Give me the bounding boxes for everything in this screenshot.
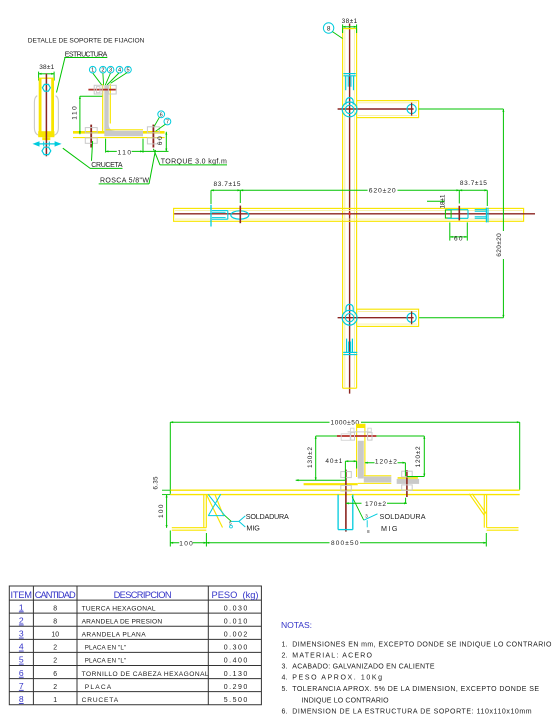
svg-text:NOTAS:: NOTAS: [281,620,312,630]
svg-text:7: 7 [166,120,169,126]
main crossarm (yellow) [174,208,524,221]
svg-text:0.002: 0.002 [224,632,248,639]
svg-text:ARANDELA DE PRESION: ARANDELA DE PRESION [82,618,163,625]
svg-text:CRUCETA: CRUCETA [82,697,119,704]
svg-text:170±2: 170±2 [365,501,386,508]
main crossarm centerline (maroon) [174,213,535,215]
left end bracket (yellow) [172,495,207,531]
svg-text:120±2: 120±2 [415,446,422,467]
svg-text:8: 8 [327,25,331,32]
svg-text:800±50: 800±50 [331,540,359,547]
dimension 83.7±15 left [211,181,241,204]
lower crossarm centerline (maroon) [338,317,414,319]
cruceta flange band (yellow) [73,132,165,137]
label CRUCETA with leaders [63,141,123,169]
bolt top of angle (red) [337,435,377,437]
bolt centerline (side view) [45,74,47,157]
upper arm end hole (cyan) [407,103,416,116]
svg-text:PLACA EN "L": PLACA EN "L" [85,658,127,665]
svg-text:PESO (kg): PESO (kg) [212,590,259,600]
svg-text:40±1: 40±1 [325,458,342,465]
svg-text:DETALLE DE SOPORTE DE FIJACION: DETALLE DE SOPORTE DE FIJACION [28,37,145,44]
left mounting bolt (maroon) [239,206,241,224]
weld arrows left (cyan) [208,494,245,528]
svg-text:CANTIDAD: CANTIDAD [35,590,76,600]
shackle upper (cyan) [346,98,353,105]
pole centerline (maroon) [349,24,351,394]
label SOLDADURA MIG left [246,512,289,533]
svg-text:2: 2 [53,658,57,665]
right clamp bracket (cyan) [448,210,468,219]
u-bolt eye lower (cyan circles) [342,310,357,325]
svg-text:MIG: MIG [381,524,398,533]
svg-text:INDIQUE LO CONTRARIO: INDIQUE LO CONTRARIO [301,697,389,704]
balloon 8 with leader [323,23,342,39]
svg-text:DIMENSIONES EN mm, EXCEPTO DON: DIMENSIONES EN mm, EXCEPTO DONDE SE INDI… [292,641,552,648]
svg-text:2: 2 [53,684,57,691]
svg-text:8: 8 [53,618,57,625]
dimension 170±2 [346,498,407,508]
balloon leaders 6-7 [154,117,165,131]
svg-text:2: 2 [19,616,24,626]
angle bracket assembly (gray/yellow) [356,424,391,484]
dimension 110 horizontal [106,139,169,157]
lower arm end hole (cyan) [407,311,416,324]
svg-text:MIG: MIG [246,524,260,533]
right cruceta clamp (cyan) [475,208,488,223]
svg-text:38±1: 38±1 [39,64,54,71]
svg-text:10: 10 [51,632,59,639]
svg-text:60: 60 [454,236,463,243]
dimension 100 bottom [170,531,206,548]
dimension 60 (detail) [157,132,166,152]
dimension 1000±50 [170,418,519,494]
svg-text:ACABADO: GALVANIZADO EN CALIEN: ACABADO: GALVANIZADO EN CALIENTE [292,664,435,671]
label SOLDADURA MIG right [380,512,426,533]
svg-text:620±20: 620±20 [369,188,396,195]
svg-text:0.300: 0.300 [224,645,248,652]
svg-text:4: 4 [118,68,121,74]
svg-text:0.030: 0.030 [224,605,248,612]
svg-text:1: 1 [53,697,57,704]
svg-text:PESO APROX. 10Kg: PESO APROX. 10Kg [292,675,382,682]
svg-text:4: 4 [19,642,24,652]
beam cruceta (yellow) [170,490,519,494]
dimension 130±2 [296,436,346,480]
svg-text:130±2: 130±2 [307,447,314,468]
dimension 120±2 horizontal [365,457,406,476]
svg-text:1000±50: 1000±50 [331,419,360,426]
svg-text:2.: 2. [282,653,288,660]
svg-text:TOLERANCIA APROX. 5% DE LA DIM: TOLERANCIA APROX. 5% DE LA DIMENSION, EX… [292,686,539,693]
right end bracket (yellow) [484,495,518,531]
svg-text:2: 2 [101,68,104,74]
svg-text:18±1: 18±1 [440,194,447,208]
structure profile (gray outline) [34,96,58,136]
dimension 40±1 [325,458,356,480]
dimension 620±20 horizontal [240,186,459,195]
L-bracket plate (gray with yellow edges) [103,84,143,136]
hex nut below (cyan) [42,147,51,154]
left bolt through cruceta (maroon) [90,125,92,148]
left bolt nuts (gray) [341,472,352,491]
dimension 60 (main) [450,222,468,242]
svg-text:8: 8 [53,605,57,612]
table rows [19,602,247,704]
right bolt through cruceta (maroon) [152,125,154,148]
bolt through vertical leg (red) [88,89,116,91]
svg-text:DESCRIPCION: DESCRIPCION [114,590,172,600]
svg-text:8: 8 [19,694,24,704]
label ESTRUCTURA with leader [57,51,108,92]
pole (yellow) [343,29,357,389]
dimension 18±1 [427,194,447,208]
upper crossarm centerline (maroon) [338,108,414,110]
svg-text:0.010: 0.010 [224,618,248,625]
svg-text:0.400: 0.400 [224,658,248,665]
guy clamp lower (cyan) [343,339,357,355]
washers at top bolt (gray) [94,85,116,94]
dimension 38±1 (pole top) [342,18,358,33]
lower crossarm (yellow) [357,309,419,326]
svg-text:ARANDELA PLANA: ARANDELA PLANA [82,632,147,639]
svg-text:6.: 6. [282,709,288,716]
left gusset brace (yellow) [206,494,223,527]
dimension 620±20 vertical (right) [419,109,508,318]
right hanger bolt (maroon) [406,470,408,497]
svg-text:2: 2 [53,645,57,652]
u-bolt below beam (cyan) [338,495,353,530]
svg-text:4.: 4. [282,675,288,682]
svg-text:TUERCA HEXAGONAL: TUERCA HEXAGONAL [82,605,156,612]
svg-text:3: 3 [109,68,112,74]
svg-text:110: 110 [72,106,79,120]
shackle lower (cyan) [346,304,353,311]
dimension 800±50 [206,533,486,547]
table headers [11,590,259,600]
svg-text:110: 110 [118,149,132,156]
keeper plate right (green) [445,210,451,218]
svg-text:6: 6 [160,112,163,118]
svg-text:SOLDADURA: SOLDADURA [246,512,289,521]
svg-text:620±20: 620±20 [496,233,503,257]
dimension 120±2 vertical [376,436,424,477]
svg-text:5.500: 5.500 [224,697,248,704]
left bolt washers (gray) [85,128,97,144]
svg-text:ITEM: ITEM [11,590,33,600]
svg-text:0.290: 0.290 [224,684,248,691]
channel post (yellow, side view) [38,78,54,140]
svg-text:DIMENSION DE LA ESTRUCTURA DE: DIMENSION DE LA ESTRUCTURA DE SOPORTE: 1… [292,709,531,716]
svg-text:7: 7 [19,681,24,691]
guy clamp upper (cyan) [343,74,355,91]
weld leader right (cyan) [352,496,378,534]
right bolt nuts (gray) [402,471,413,490]
upper crossarm (yellow) [357,101,419,118]
label TORQUE 3.0 kgf.m with leader [153,149,227,166]
right plate (yellow+gray) [397,478,419,484]
hex bolt head (cyan) [42,84,50,91]
dimension 100 vertical (left) [158,495,167,528]
svg-text:83.7±15: 83.7±15 [460,180,487,187]
dimension 38±1 (side view) [39,64,55,81]
right bolt washers (gray) [147,127,159,144]
svg-text:100: 100 [158,504,165,518]
svg-text:3: 3 [19,629,24,639]
dimension 110 vertical [72,96,103,134]
svg-text:SOLDADURA: SOLDADURA [380,512,426,521]
svg-text:6: 6 [19,668,24,678]
svg-text:60: 60 [157,136,164,145]
label ROSCA 5/8"W with leader [99,150,156,185]
svg-text:PLACA: PLACA [85,684,112,691]
balloons 6 and 7 [158,111,171,126]
left clamp bracket (cyan) [211,205,228,227]
top bolt washers (gray) [341,428,372,440]
svg-text:1: 1 [91,68,94,74]
dimension 83.7±15 right [459,180,487,206]
left plate (yellow band) [304,483,358,485]
svg-text:TORNILLO DE CABEZA HEXAGONAL: TORNILLO DE CABEZA HEXAGONAL [82,671,209,678]
parts table grid [9,586,261,705]
svg-text:120±2: 120±2 [375,458,397,465]
left hanger bolt (maroon) [345,470,347,532]
svg-text:100: 100 [179,540,193,547]
svg-text:5: 5 [19,655,24,665]
balloon leaders 1-5 [93,73,127,86]
svg-text:83.7±15: 83.7±15 [214,181,241,188]
svg-text:PLACA EN "L": PLACA EN "L" [85,645,127,652]
svg-text:MATERIAL: ACERO: MATERIAL: ACERO [292,653,372,660]
balloons 1-5 [89,66,131,73]
u-bolt eye upper (cyan circles) [342,102,357,117]
svg-text:38±1: 38±1 [342,18,358,25]
left u-bolt oval (cyan) [231,211,249,219]
svg-text:1: 1 [19,602,24,612]
right gusset brace (yellow) [469,494,486,516]
right mounting bolt (maroon) [458,206,460,221]
notes list [282,641,553,715]
svg-text:3.: 3. [282,664,288,671]
cruceta cross-section double arrow (cyan) [33,141,62,146]
svg-text:6.35: 6.35 [153,476,159,490]
svg-text:1.: 1. [282,641,288,648]
svg-text:5.: 5. [282,686,288,693]
svg-text:6: 6 [53,671,57,678]
dimension 6.35 [153,476,170,495]
svg-text:0.130: 0.130 [224,671,248,678]
